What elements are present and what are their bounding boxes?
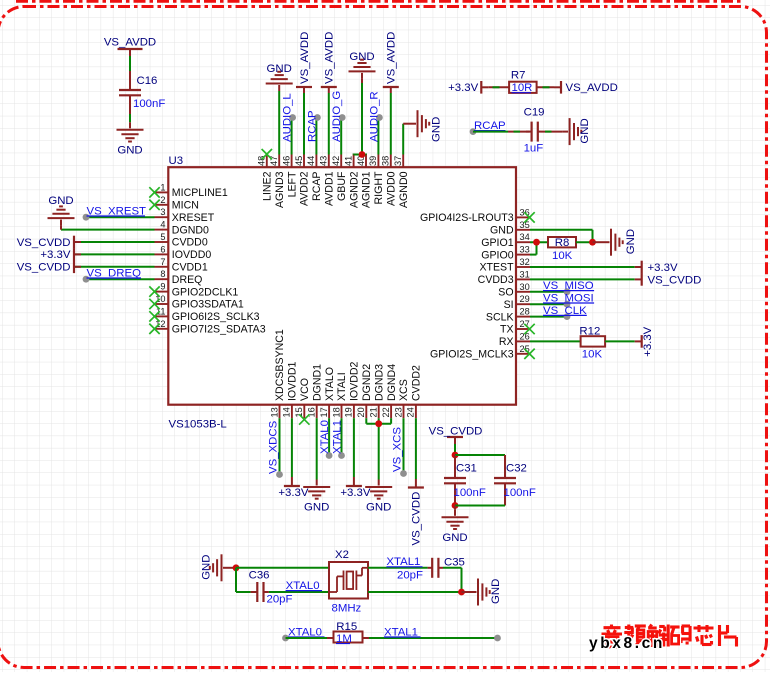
wire VS_XDCS — [279, 418, 281, 474]
pin 41 (AGND2) — [353, 155, 355, 168]
svg-text:42: 42 — [331, 156, 341, 166]
svg-text:+3.3V: +3.3V — [642, 326, 654, 356]
node VS_DREQ (dangling end) — [83, 276, 90, 283]
pin 40 (AGND1) — [365, 155, 367, 168]
wire CVDD3 to VS_CVDD — [530, 278, 635, 280]
wire R7 to VS_AVDD — [537, 86, 554, 88]
svg-text:28: 28 — [520, 307, 530, 317]
svg-text:VS_CVDD: VS_CVDD — [429, 425, 483, 437]
ground (pin 4 DGND0) — [48, 217, 75, 219]
svg-text:21: 21 — [369, 407, 379, 417]
svg-text:R12: R12 — [579, 325, 600, 337]
junction (C31 bottom) — [452, 502, 459, 509]
no-connect pin 10 — [149, 299, 159, 309]
wire+net label AUDIO_R (pin 39) — [377, 118, 379, 155]
svg-text:DGND4: DGND4 — [386, 364, 398, 401]
svg-text:GPIO3SDATA1: GPIO3SDATA1 — [172, 299, 244, 311]
pin 22 (DGND4) — [390, 405, 392, 419]
wire AGND3 to ground — [278, 91, 280, 155]
power flag VS_CVDD (pin 5) — [74, 241, 155, 243]
node RCAP (dangling end) — [470, 128, 477, 135]
wire+net label RCAP (pin 44) — [315, 118, 317, 155]
svg-text:GPIO0: GPIO0 — [481, 249, 513, 261]
svg-text:ybx8.cn: ybx8.cn — [589, 635, 665, 652]
wire junction to C32 top — [455, 454, 505, 456]
wire+net label XTAL1 (pin 18) — [341, 418, 343, 455]
svg-text:100nF: 100nF — [454, 487, 486, 499]
svg-text:31: 31 — [520, 269, 530, 279]
svg-text:XTEST: XTEST — [479, 262, 514, 274]
svg-text:VS_AVDD: VS_AVDD — [104, 37, 156, 49]
svg-text:VS_XCS: VS_XCS — [392, 427, 404, 472]
pin 21 (DGND3) — [378, 405, 380, 419]
power flag +3.3V (pin 32) — [635, 266, 642, 268]
pin 20 (DGND2) — [365, 405, 367, 419]
pin 42 (GBUF) — [340, 155, 342, 168]
wire DGND0 to ground — [61, 229, 155, 231]
svg-text:RIGHT: RIGHT — [373, 171, 385, 204]
svg-text:MICN: MICN — [172, 200, 199, 212]
svg-text:+3.3V: +3.3V — [278, 487, 308, 499]
svg-text:GND: GND — [442, 532, 467, 544]
svg-text:GND: GND — [201, 554, 213, 579]
svg-text:TX: TX — [500, 324, 514, 336]
svg-text:6: 6 — [160, 244, 165, 254]
capacitor C32 — [494, 477, 516, 479]
svg-text:R15: R15 — [336, 621, 357, 633]
svg-text:XTAL1: XTAL1 — [332, 420, 344, 454]
svg-text:C36: C36 — [249, 569, 270, 581]
svg-text:44: 44 — [306, 156, 316, 166]
svg-text:+3.3V: +3.3V — [448, 82, 478, 94]
node VS_XCS (dangling end) — [400, 470, 407, 477]
wire+net label AUDIO_G (pin 42) — [340, 118, 342, 155]
junction (R8 right) — [589, 239, 596, 246]
capacitor C36 — [251, 591, 258, 593]
pin 31 (CVDD3) — [516, 278, 530, 280]
no-connect pin 25 — [524, 349, 534, 359]
svg-text:3: 3 — [160, 207, 165, 217]
ground (pins 20/21/22) — [365, 486, 392, 488]
ground (C31/C32) — [442, 516, 469, 518]
svg-text:CVDD1: CVDD1 — [172, 262, 208, 274]
outer sheet border (top, partially cut) — [16, 0, 742, 3]
no-connect pin 11 — [149, 311, 159, 321]
svg-text:2: 2 — [160, 195, 165, 205]
svg-text:XCS: XCS — [398, 379, 410, 401]
svg-text:VS_AVDD: VS_AVDD — [566, 82, 618, 94]
power flag +3.3V (pin 26) — [635, 340, 642, 342]
svg-text:RCAP: RCAP — [306, 110, 318, 142]
wire CVDD2 to VS_CVDD — [415, 418, 417, 479]
svg-text:AVDD1: AVDD1 — [324, 171, 336, 206]
svg-text:DGND0: DGND0 — [172, 224, 209, 236]
svg-text:GND: GND — [304, 502, 329, 514]
wire VS_XREST — [86, 216, 155, 218]
pin 3 (XRESET) — [155, 216, 169, 218]
pin 17 (XTALO) — [328, 405, 330, 419]
pin 35 (GND) — [516, 229, 530, 231]
svg-text:48: 48 — [257, 156, 267, 166]
no-connect pin 2 — [149, 200, 159, 210]
svg-text:VS_CVDD: VS_CVDD — [410, 492, 422, 546]
power flag VS_CVDD (pin 24) — [415, 479, 417, 488]
svg-text:VS_CVDD: VS_CVDD — [17, 262, 71, 274]
svg-text:34: 34 — [520, 232, 530, 242]
pin 6 (IOVDD0) — [155, 253, 169, 255]
title text 音频解码芯片 (red) — [610, 625, 613, 628]
wire+net label VS_MISO (pin 30) — [530, 291, 567, 293]
svg-text:GND: GND — [48, 195, 73, 207]
power flag VS_AVDD (R7) — [554, 86, 561, 88]
node VS_XREST (dangling end) — [83, 214, 90, 221]
svg-text:45: 45 — [294, 156, 304, 166]
no-connect pin 12 — [149, 324, 159, 334]
svg-text:LINE2: LINE2 — [262, 171, 274, 201]
svg-text:DREQ: DREQ — [172, 274, 203, 286]
svg-text:AGND0: AGND0 — [398, 171, 410, 208]
svg-text:XRESET: XRESET — [172, 212, 215, 224]
wire +3.3V to R7 — [488, 86, 509, 88]
pin 48 (LINE2) — [266, 155, 268, 168]
crystal X2 body — [329, 562, 368, 599]
node XTAL1 (R15 right) — [494, 635, 501, 642]
svg-text:GND: GND — [117, 145, 142, 157]
svg-text:DGND2: DGND2 — [361, 364, 373, 401]
op-amp U3 body — [168, 167, 516, 405]
svg-text:+3.3V: +3.3V — [648, 262, 678, 274]
wire RX to R12 — [530, 340, 581, 342]
svg-text:AVDD2: AVDD2 — [299, 171, 311, 206]
power flag +3.3V (pin 14) — [291, 418, 293, 477]
no-connect pin 9 — [149, 286, 159, 296]
svg-text:13: 13 — [269, 407, 279, 417]
ground (pin 16) — [303, 486, 330, 488]
svg-text:CVDD2: CVDD2 — [411, 365, 423, 401]
svg-text:GND: GND — [625, 229, 637, 254]
pin 28 (SCLK) — [516, 316, 530, 318]
pin 38 (AVDD0) — [390, 155, 392, 168]
pin 10 (GPIO3SDATA1) — [155, 303, 169, 305]
capacitor C16 — [129, 71, 131, 90]
svg-text:38: 38 — [381, 156, 391, 166]
svg-text:37: 37 — [393, 156, 403, 166]
wire DGND2/3/4 join — [365, 418, 367, 424]
pin 4 (DGND0) — [155, 229, 169, 231]
svg-text:VS1053B-L: VS1053B-L — [169, 419, 227, 431]
svg-text:AUDIO_R: AUDIO_R — [368, 91, 380, 142]
svg-text:GPIOI2S_MCLK3: GPIOI2S_MCLK3 — [430, 349, 514, 361]
wire AGND0 to side ground — [402, 124, 404, 155]
svg-text:DGND3: DGND3 — [373, 364, 385, 401]
svg-text:XTAL0: XTAL0 — [319, 420, 331, 454]
svg-text:CVDD0: CVDD0 — [172, 237, 208, 249]
wire AGND2/AGND1 join — [354, 154, 366, 156]
pin 24 (CVDD2) — [415, 405, 417, 419]
ground (pins 40/41) — [349, 70, 376, 72]
pin 23 (XCS) — [403, 405, 405, 419]
resistor R12 — [581, 336, 606, 346]
svg-text:8: 8 — [160, 269, 165, 279]
svg-text:GPIO1: GPIO1 — [481, 237, 513, 249]
wire junction A to X2 — [236, 567, 329, 569]
ground (R8) — [610, 229, 612, 256]
pin 25 (GPIOI2S_MCLK3) — [516, 353, 530, 355]
svg-text:AUDIO_G: AUDIO_G — [331, 91, 343, 142]
svg-text:AGND1: AGND1 — [361, 171, 373, 208]
wire junction A down — [235, 568, 237, 592]
svg-text:R8: R8 — [555, 237, 570, 249]
power flag VS_CVDD (pin 7) — [74, 266, 155, 268]
no-connect pin 15 — [299, 414, 309, 424]
wire RCAP to C19 — [473, 131, 508, 133]
junction (R8 left) — [533, 239, 540, 246]
svg-text:20pF: 20pF — [267, 594, 293, 606]
no-connect pin 27 — [524, 324, 534, 334]
wire ground to junction A — [229, 567, 236, 569]
svg-text:7: 7 — [160, 257, 165, 267]
svg-text:5: 5 — [160, 232, 165, 242]
svg-text:IOVDD0: IOVDD0 — [172, 249, 212, 261]
wire GPIO0 up to junction — [530, 254, 537, 256]
svg-text:RX: RX — [499, 336, 514, 348]
junction (DGND3) — [375, 420, 382, 427]
svg-text:GPIO2DCLK1: GPIO2DCLK1 — [172, 286, 239, 298]
power flag +3.3V (R7) — [481, 86, 488, 88]
svg-text:AGND3: AGND3 — [274, 171, 286, 208]
svg-text:43: 43 — [319, 156, 329, 166]
wire XTAL0 to R15 — [286, 637, 328, 639]
wire GPIO1 to R8 — [530, 241, 548, 243]
pin 46 (LEFT) — [291, 155, 293, 168]
svg-text:X2: X2 — [335, 549, 349, 561]
wire C36 to X2 (XTAL0) — [269, 591, 329, 593]
pin 27 (TX) — [516, 328, 530, 330]
capacitor C35 — [428, 567, 433, 569]
resistor R7 — [509, 82, 536, 93]
wire GND pin35 to R8 right — [530, 229, 593, 231]
svg-text:C31: C31 — [456, 463, 477, 475]
wire C35 to junction B — [443, 567, 462, 569]
pin 33 (GPIO0) — [516, 254, 530, 256]
svg-text:15: 15 — [294, 407, 304, 417]
svg-text:GND: GND — [349, 51, 374, 63]
svg-text:GBUF: GBUF — [336, 171, 348, 201]
pin 26 (RX) — [516, 340, 530, 342]
svg-text:46: 46 — [281, 156, 291, 166]
wire R12 to +3.3V — [605, 340, 635, 342]
node XTAL0 (R15 left) — [282, 635, 289, 642]
wire+net label VS_CLK (pin 28) — [530, 316, 567, 318]
pin 34 (GPIO1) — [516, 241, 530, 243]
node VS_XDCS (dangling end) — [276, 471, 283, 478]
svg-text:20pF: 20pF — [397, 570, 423, 582]
svg-text:+3.3V: +3.3V — [340, 487, 370, 499]
svg-text:GND: GND — [490, 225, 514, 237]
svg-text:XTALO: XTALO — [324, 367, 336, 401]
svg-text:9: 9 — [160, 282, 165, 292]
svg-text:1: 1 — [160, 182, 165, 192]
svg-text:MICPLINE1: MICPLINE1 — [172, 187, 228, 199]
svg-text:VCO: VCO — [299, 378, 311, 401]
pin 13 (XDCSBSYNC1) — [279, 405, 281, 419]
svg-text:32: 32 — [520, 257, 530, 267]
pin 14 (IOVDD1) — [291, 405, 293, 419]
svg-text:8MHz: 8MHz — [332, 603, 362, 615]
pin 36 (GPIO4I2S-LROUT3) — [516, 216, 530, 218]
svg-text:AGND2: AGND2 — [348, 171, 360, 208]
svg-text:1uF: 1uF — [524, 143, 544, 155]
wire+net label VS_MOSI (pin 29) — [530, 303, 567, 305]
pin 47 (AGND3) — [278, 155, 280, 168]
svg-text:20: 20 — [356, 407, 366, 417]
wire R8 to ground — [593, 241, 604, 243]
wire X2 lower to junction B — [368, 591, 462, 593]
pin 9 (GPIO2DCLK1) — [155, 291, 169, 293]
power flag VS_AVDD (pin 38) — [390, 93, 392, 155]
no-connect pin 36 — [524, 212, 534, 222]
power flag VS_AVDD (pin 43) — [328, 93, 330, 155]
wire C16 to GND — [129, 114, 131, 122]
resistor R8 — [548, 237, 576, 247]
no-connect pin 1 — [149, 187, 159, 197]
svg-text:18: 18 — [331, 407, 341, 417]
wire DGND1 to ground (pin 16) — [316, 418, 318, 479]
svg-text:DGND1: DGND1 — [311, 364, 323, 401]
svg-text:LEFT: LEFT — [286, 171, 298, 197]
svg-text:33: 33 — [520, 245, 530, 255]
svg-text:19: 19 — [344, 407, 354, 417]
wire VS_AVDD to C16 — [129, 56, 131, 71]
ground (crystal right) — [477, 579, 479, 606]
pin 16 (DGND1) — [316, 405, 318, 419]
svg-text:IOVDD1: IOVDD1 — [287, 361, 299, 401]
svg-text:SO: SO — [498, 287, 513, 299]
svg-text:CVDD3: CVDD3 — [478, 274, 514, 286]
pin 7 (CVDD1) — [155, 266, 169, 268]
svg-text:IOVDD2: IOVDD2 — [349, 361, 361, 401]
svg-text:GND: GND — [267, 63, 292, 75]
pin 43 (AVDD1) — [328, 155, 330, 168]
power flag VS_CVDD (C31) — [454, 437, 456, 444]
svg-text:30: 30 — [520, 282, 530, 292]
svg-text:SCLK: SCLK — [486, 311, 514, 323]
svg-text:+3.3V: +3.3V — [40, 249, 70, 261]
no-connect pin 48 — [262, 149, 272, 159]
ground (C19) — [569, 118, 571, 145]
pin 39 (RIGHT) — [377, 155, 379, 168]
pin 19 (IOVDD2) — [353, 405, 355, 419]
capacitor C19 — [526, 131, 532, 133]
wire VS_DREQ — [86, 278, 155, 280]
pin 18 (XTALI) — [341, 405, 343, 419]
pin 45 (AVDD2) — [303, 155, 305, 168]
svg-text:GND: GND — [366, 502, 391, 514]
svg-text:R7: R7 — [511, 69, 526, 81]
wire X2 to C35 (XTAL1) — [368, 567, 428, 569]
ground (pin 47 AGND3) — [266, 83, 293, 85]
svg-text:U3: U3 — [169, 155, 184, 167]
pin 15 (VCO) — [303, 405, 305, 419]
svg-text:GPIO6I2S_SCLK3: GPIO6I2S_SCLK3 — [172, 311, 260, 323]
svg-text:C32: C32 — [506, 463, 527, 475]
pin 8 (DREQ) — [155, 278, 169, 280]
svg-text:23: 23 — [393, 407, 403, 417]
pin 5 (CVDD0) — [155, 241, 169, 243]
capacitor C31 — [454, 455, 456, 478]
svg-text:VS_XDCS: VS_XDCS — [268, 420, 280, 474]
svg-text:RCAP: RCAP — [311, 172, 323, 201]
power flag VS_AVDD (C16) — [129, 49, 131, 56]
svg-text:14: 14 — [282, 407, 292, 417]
svg-text:XDCSBSYNC1: XDCSBSYNC1 — [274, 329, 286, 401]
junction B (crystal GND right) — [458, 589, 465, 596]
wire+net label AUDIO_L (pin 46) — [291, 118, 293, 155]
wire XTEST to +3.3V — [530, 266, 635, 268]
svg-text:24: 24 — [406, 407, 416, 417]
ground (pin 37 AGND0) — [417, 110, 419, 137]
svg-text:VS_CVDD: VS_CVDD — [648, 274, 702, 286]
wire to top ground — [361, 83, 363, 155]
svg-text:XTALI: XTALI — [336, 372, 348, 401]
svg-text:41: 41 — [343, 156, 353, 166]
svg-text:GPIO4I2S-LROUT3: GPIO4I2S-LROUT3 — [420, 212, 514, 224]
pin 2 (MICN) — [155, 204, 169, 206]
svg-text:GND: GND — [490, 579, 502, 604]
resistor R15 — [334, 632, 363, 643]
svg-text:SI: SI — [504, 299, 514, 311]
pin 32 (XTEST) — [516, 266, 530, 268]
power flag VS_AVDD (pin 45) — [303, 93, 305, 155]
svg-text:AUDIO_L: AUDIO_L — [282, 93, 294, 142]
ground (crystal left) — [221, 554, 223, 581]
svg-text:GND: GND — [579, 118, 591, 143]
pin 30 (SO) — [516, 291, 530, 293]
wire+net label XTAL0 (pin 17) — [328, 418, 330, 455]
svg-text:VS_AVDD: VS_AVDD — [324, 32, 336, 84]
svg-text:22: 22 — [381, 407, 391, 417]
wire junction to ground — [454, 506, 456, 510]
svg-text:GND: GND — [431, 117, 443, 142]
ground (C16) — [117, 129, 144, 131]
pin 12 (GPIO7I2S_SDATA3) — [155, 328, 169, 330]
svg-text:VS_AVDD: VS_AVDD — [386, 32, 398, 84]
wire VS_CVDD to junction — [454, 444, 456, 455]
pin 37 (AGND0) — [402, 155, 404, 168]
svg-text:10K: 10K — [582, 349, 603, 361]
svg-text:17: 17 — [319, 407, 329, 417]
svg-text:100nF: 100nF — [133, 98, 165, 110]
wire junction B to ground — [462, 591, 471, 593]
wire C32 bottom to junction — [455, 505, 505, 507]
power flag +3.3V (pin 6) — [74, 253, 155, 255]
power flag +3.3V (pin 19) — [353, 418, 355, 477]
power flag VS_CVDD (pin 31) — [635, 278, 642, 280]
svg-text:GPIO7I2S_SDATA3: GPIO7I2S_SDATA3 — [172, 324, 266, 336]
wire R15 to XTAL1 — [363, 637, 370, 639]
svg-text:VS_CVDD: VS_CVDD — [17, 237, 71, 249]
wire VS_XCS — [403, 418, 405, 473]
svg-text:VS_AVDD: VS_AVDD — [299, 32, 311, 84]
svg-text:AVDD0: AVDD0 — [386, 171, 398, 206]
junction A (crystal GND left) — [233, 564, 240, 571]
svg-text:C19: C19 — [524, 106, 545, 118]
junction (C31 top) — [452, 452, 459, 459]
svg-text:C16: C16 — [137, 75, 158, 87]
svg-text:39: 39 — [368, 156, 378, 166]
junction (AGND1/AGND2) — [359, 151, 366, 158]
svg-text:100nF: 100nF — [504, 487, 536, 499]
